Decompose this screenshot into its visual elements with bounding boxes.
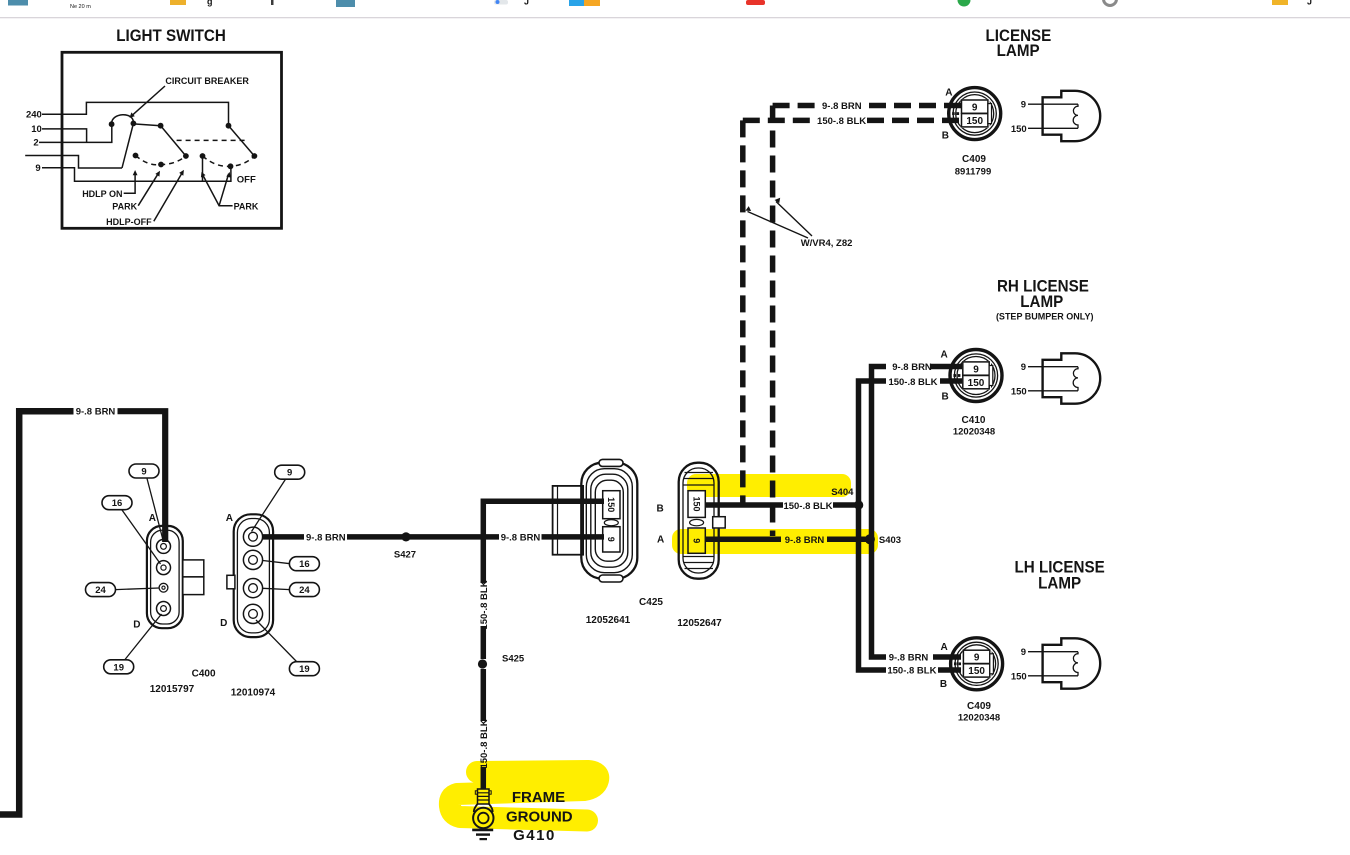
svg-text:G410: G410: [513, 827, 556, 844]
svg-text:B: B: [940, 679, 947, 690]
svg-text:S403: S403: [879, 535, 901, 546]
svg-text:12020348: 12020348: [958, 712, 1000, 723]
svg-text:g: g: [207, 0, 213, 7]
svg-text:150-.8 BLK: 150-.8 BLK: [817, 116, 866, 127]
svg-text:10: 10: [31, 124, 42, 135]
svg-text:12015797: 12015797: [150, 684, 195, 695]
svg-text:A: A: [941, 350, 948, 361]
svg-text:B: B: [942, 131, 949, 142]
svg-text:CIRCUIT BREAKER: CIRCUIT BREAKER: [165, 76, 249, 86]
svg-text:A: A: [657, 534, 664, 545]
svg-text:9-.8 BRN: 9-.8 BRN: [785, 535, 825, 546]
svg-text:C425: C425: [639, 597, 663, 608]
svg-text:24: 24: [95, 585, 106, 596]
svg-text:150: 150: [691, 496, 701, 511]
svg-text:HDLP ON: HDLP ON: [82, 189, 122, 199]
svg-text:12010974: 12010974: [231, 687, 276, 698]
svg-text:LIGHT SWITCH: LIGHT SWITCH: [116, 27, 226, 45]
svg-text:9-.8 BRN: 9-.8 BRN: [76, 407, 116, 418]
svg-text:19: 19: [299, 664, 310, 675]
svg-text:A: A: [941, 642, 948, 653]
svg-text:8911799: 8911799: [955, 166, 991, 177]
svg-text:12052647: 12052647: [677, 618, 722, 629]
svg-text:9: 9: [141, 467, 146, 478]
svg-text:D: D: [220, 618, 227, 629]
svg-text:C409: C409: [962, 154, 986, 165]
svg-text:LAMP: LAMP: [1038, 575, 1081, 593]
svg-text:150-.8 BLK: 150-.8 BLK: [888, 377, 937, 388]
svg-text:9: 9: [287, 468, 292, 479]
svg-text:9: 9: [35, 163, 40, 174]
svg-text:150-.8 BLK: 150-.8 BLK: [479, 580, 490, 629]
svg-text:19: 19: [113, 662, 124, 673]
svg-text:J: J: [524, 0, 529, 7]
svg-text:FRAME: FRAME: [512, 789, 565, 806]
svg-text:A: A: [149, 513, 156, 524]
svg-text:Ne 20 m: Ne 20 m: [70, 4, 91, 10]
svg-text:LAMP: LAMP: [997, 42, 1040, 60]
svg-text:GROUND: GROUND: [506, 809, 573, 826]
svg-text:2: 2: [33, 137, 38, 148]
svg-text:12052641: 12052641: [586, 615, 631, 626]
svg-text:12020348: 12020348: [953, 427, 995, 438]
svg-text:LAMP: LAMP: [1020, 293, 1063, 311]
svg-text:150-.8 BLK: 150-.8 BLK: [887, 666, 936, 677]
svg-text:C409: C409: [967, 701, 991, 712]
svg-text:B: B: [942, 392, 949, 403]
svg-text:OFF: OFF: [237, 175, 256, 186]
svg-text:150-.8 BLK: 150-.8 BLK: [783, 501, 832, 512]
svg-text:150-.8 BLK: 150-.8 BLK: [479, 719, 490, 768]
svg-text:9-.8 BRN: 9-.8 BRN: [889, 652, 929, 663]
svg-text:9-.8 BRN: 9-.8 BRN: [822, 101, 862, 112]
svg-text:16: 16: [299, 559, 310, 570]
svg-text:A: A: [945, 88, 952, 99]
svg-text:16: 16: [112, 498, 123, 509]
svg-text:B: B: [657, 504, 664, 515]
svg-text:C410: C410: [962, 415, 986, 426]
svg-text:9-.8 BRN: 9-.8 BRN: [892, 362, 932, 373]
svg-text:S427: S427: [394, 550, 416, 561]
svg-text:W/VR4, Z82: W/VR4, Z82: [801, 238, 853, 249]
svg-text:A: A: [226, 513, 233, 524]
svg-text:(STEP BUMPER ONLY): (STEP BUMPER ONLY): [996, 311, 1094, 321]
svg-text:PARK: PARK: [234, 201, 259, 211]
svg-text:9: 9: [606, 537, 616, 542]
svg-text:24: 24: [299, 585, 310, 596]
svg-text:9-.8 BRN: 9-.8 BRN: [501, 533, 541, 544]
svg-text:9-.8 BRN: 9-.8 BRN: [306, 532, 346, 543]
svg-text:9: 9: [691, 538, 701, 543]
svg-text:HDLP-OFF: HDLP-OFF: [106, 217, 152, 227]
svg-text:240: 240: [26, 109, 42, 120]
svg-text:J: J: [1307, 0, 1312, 7]
svg-text:S425: S425: [502, 654, 525, 665]
svg-text:150: 150: [606, 497, 616, 512]
svg-text:D: D: [133, 619, 140, 630]
svg-text:PARK: PARK: [112, 201, 137, 211]
svg-text:C400: C400: [192, 668, 216, 679]
svg-text:S404: S404: [831, 487, 854, 498]
